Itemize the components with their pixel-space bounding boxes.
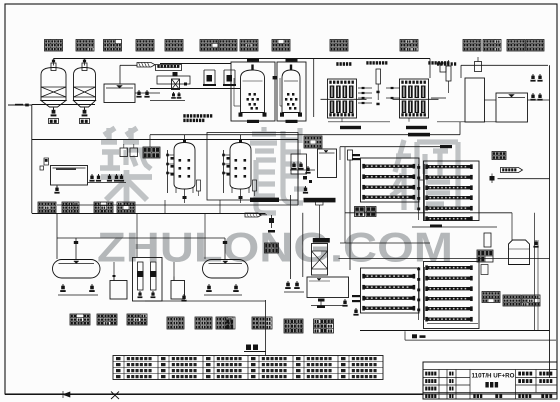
acid storage tank (53, 260, 101, 279)
label box T11 (400, 40, 418, 52)
label box T6 (200, 40, 218, 52)
caustic transfer pump (183, 294, 185, 298)
label box T14 (507, 40, 525, 52)
degasser label (313, 238, 330, 243)
pipe under filter vessels (32, 104, 95, 106)
degassed water tank (307, 277, 349, 298)
label box T13 (483, 40, 501, 52)
tank feed pipes (75, 238, 77, 260)
bottom collection pipes (360, 330, 550, 332)
label box T9 (272, 40, 290, 52)
tank outlet pump (318, 299, 325, 302)
UF bank labels (340, 126, 361, 129)
transfer pumps set A (138, 90, 140, 94)
label box T15 (526, 40, 544, 52)
label box T4 (136, 40, 154, 52)
label boxes row 2 (38, 202, 56, 213)
label box pair mid (143, 147, 160, 158)
label box T1 (45, 40, 63, 52)
neutralization basin (51, 166, 88, 186)
bottom right label boxes (482, 292, 500, 303)
filter riser lines (252, 59, 254, 63)
metering pump frame (133, 258, 163, 302)
sample cooler (484, 233, 491, 247)
chemical grid box (265, 243, 279, 253)
degasser column (312, 244, 328, 276)
clearwell riser pipe (119, 65, 121, 84)
pipes around UF bank 2 (386, 87, 400, 89)
label box T12 (463, 40, 481, 52)
pipe from degasser area (345, 212, 512, 214)
pipe to section 2 (150, 134, 460, 136)
watermark char WANG (網) (391, 140, 458, 210)
degasser feed vertical (302, 213, 304, 277)
pump under F1 (53, 108, 55, 112)
label boxes bottom row (70, 314, 90, 325)
mixer pump (271, 215, 273, 228)
basin drain pump (56, 185, 58, 188)
degasser top pipe (319, 205, 321, 238)
pump cluster right of anion (303, 176, 307, 180)
anion manifold (223, 150, 225, 193)
acid day tank (110, 281, 127, 300)
inter filter valve (273, 76, 278, 79)
label boxes right of degasser (355, 207, 365, 217)
resin trap 2 (253, 180, 257, 191)
RO stage2 rack right (424, 262, 480, 329)
pipe label dark strips (408, 133, 430, 137)
title block small texts (425, 372, 427, 376)
pump small right (491, 174, 493, 184)
svg-text:110T/H UF+RO: 110T/H UF+RO (472, 373, 515, 380)
degasser transfer pumps (287, 281, 289, 285)
measuring tank (157, 76, 190, 84)
legend table (113, 356, 383, 380)
valve cluster between UF banks (358, 87, 372, 89)
RO feed line (340, 146, 443, 148)
transfer pumps right (532, 74, 534, 78)
mixed bed tank (509, 240, 530, 265)
UF membrane bank 1 (328, 79, 357, 118)
watermark char LONG (龍) (250, 127, 306, 213)
tank1 pumps (62, 284, 64, 288)
activated carbon filter unit (231, 62, 275, 121)
pump grid box right (477, 250, 493, 262)
inter-rack pipes (412, 226, 497, 228)
cation manifold (167, 150, 169, 193)
trough hatch (157, 65, 159, 68)
dosing note above UF (366, 61, 368, 64)
label grid right top (492, 152, 506, 160)
label box T3 (104, 40, 122, 52)
RO feed tank (318, 149, 337, 178)
pipe top of degasser (289, 195, 291, 279)
cartridge filter col (348, 150, 353, 160)
polish pump right (535, 240, 537, 244)
transfer pump row (91, 174, 93, 178)
section 2 bottom pipes (57, 204, 298, 206)
small horizontal cartridge vessel (137, 63, 155, 68)
tank support line (311, 305, 345, 307)
anion exchanger (230, 143, 251, 184)
UF frame left line (313, 59, 315, 117)
tank2 pumps (208, 284, 210, 288)
inlet trough (156, 65, 182, 71)
section bottom header pipe (32, 213, 266, 215)
pump under F2 (84, 108, 86, 112)
label box T7 (219, 40, 237, 52)
booster pump unit B2 (223, 70, 225, 84)
right verticals (534, 213, 536, 330)
title block (423, 362, 557, 399)
stage2 feed vertical (344, 147, 346, 243)
dosing manifold lines (160, 63, 231, 65)
RO stage1 rack right (424, 161, 480, 221)
cation exchanger (174, 143, 195, 184)
UF drain headers (328, 121, 390, 123)
security filter note (304, 198, 336, 203)
UF product tank (496, 93, 528, 122)
cigar mixer right (501, 168, 523, 173)
revision arrow mark (63, 392, 70, 397)
tiny box 225 (225, 317, 235, 329)
basin instruments (44, 158, 49, 165)
section 2 boundary (32, 139, 298, 141)
UF water enclosure (465, 78, 485, 122)
clearwell tank (104, 84, 135, 103)
right edge main pipe (549, 65, 551, 378)
inlet vertical pipe (31, 105, 33, 213)
valve dot row top right (437, 62, 439, 65)
mechanical filter vessel F1 (51, 63, 56, 71)
label box T2 (76, 40, 94, 52)
label box T8 (240, 40, 258, 52)
tall label box A (284, 319, 303, 333)
mechanical filter vessel F2 (82, 63, 87, 71)
dosing text note (183, 114, 185, 117)
static mixer 2 (245, 213, 262, 217)
UF outlet pipe (431, 97, 446, 99)
caustic day tank (171, 281, 185, 300)
ion exchange frame (207, 133, 298, 201)
rack note strip (430, 225, 442, 228)
vessel risers (184, 135, 186, 143)
pipe right products (498, 178, 550, 180)
manifold pipe lower (150, 88, 240, 90)
inline filter with X (172, 79, 180, 90)
vessel riser valves (52, 60, 55, 63)
day tank risers (113, 262, 115, 281)
RO stage2 rack left (361, 268, 420, 313)
UF membrane bank 2 (400, 79, 429, 118)
pipe down from section2 (56, 213, 58, 259)
acid alkali line (149, 135, 151, 147)
label box T10 (330, 40, 348, 52)
resin trap 1 (197, 180, 201, 191)
inter-rack valve column (418, 164, 420, 220)
raw water inlet line (8, 104, 32, 106)
RO feed pumps (293, 162, 295, 166)
degassing column small (446, 66, 451, 81)
x mark (111, 392, 119, 400)
backwash column (376, 69, 381, 84)
RO rack headers valves (352, 154, 360, 156)
tall label box B (314, 319, 334, 333)
caustic storage tank (203, 260, 249, 279)
small day tanks top right (475, 62, 482, 72)
legend title (246, 345, 251, 351)
booster pump unit B1 (203, 70, 205, 84)
pipe top right (461, 64, 548, 66)
RO stage1 rack left (361, 158, 420, 202)
watermark char ZHU (築) (100, 128, 152, 203)
dosing tanks pair (120, 148, 128, 157)
bottom band lines (405, 339, 556, 341)
pipe bottom middle (265, 300, 267, 356)
small box right (481, 265, 488, 275)
bottom frame line (5, 394, 423, 396)
sand filter unit (277, 62, 306, 121)
RO pump frame (291, 154, 307, 174)
tank outlet connectors (484, 99, 496, 101)
label box RO feed (304, 136, 322, 148)
label box T5 (165, 40, 183, 52)
